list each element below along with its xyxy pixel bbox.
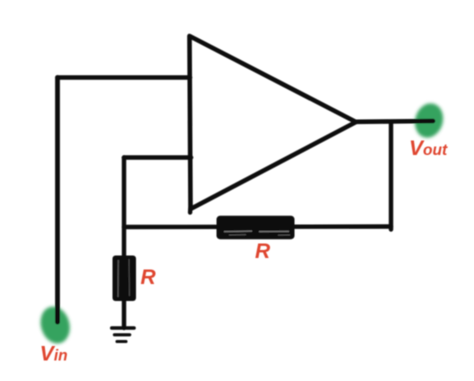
svg-text:R: R xyxy=(141,266,157,289)
op-amp U1 xyxy=(190,36,357,209)
wire: output xyxy=(356,119,433,124)
wire: feedback right vertical xyxy=(389,122,393,230)
terminal Vout (green) xyxy=(411,100,447,141)
wire: op-amp left-edge overshoot xyxy=(188,209,193,213)
resistor R2 (feedback, horizontal) xyxy=(217,216,295,239)
svg-text:R: R xyxy=(255,240,271,263)
resistor R1 (vertical) xyxy=(113,256,137,302)
terminal Vin (green) xyxy=(36,303,74,347)
wire: non-inverting input (top) xyxy=(58,75,191,80)
ground xyxy=(112,328,134,342)
wire: inverting input vertical down to ground xyxy=(122,158,126,329)
wire: Vin vertical xyxy=(55,78,60,323)
wire: inverting input (horizontal) xyxy=(124,155,191,160)
wire: feedback bottom horizontal xyxy=(124,224,391,229)
